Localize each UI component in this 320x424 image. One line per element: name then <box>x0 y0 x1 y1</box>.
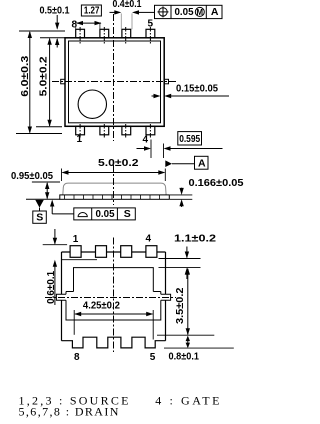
side view mold body <box>63 183 166 195</box>
pin 1 (bottom) <box>76 126 85 135</box>
svg-text:A: A <box>198 157 206 169</box>
svg-text:A: A <box>211 6 219 18</box>
svg-text:0.95±0.05: 0.95±0.05 <box>11 170 53 182</box>
plate tick marks <box>65 195 160 199</box>
vertical centerline top view <box>113 14 115 141</box>
pin1 indicator circle <box>78 90 106 118</box>
pin 7 (top) <box>100 29 109 38</box>
svg-text:S: S <box>124 208 131 220</box>
datum S flag <box>35 200 44 208</box>
svg-text:1.1±0.2: 1.1±0.2 <box>174 233 216 245</box>
dimension 0.595 (boxed) <box>178 132 202 145</box>
horizontal centerline top view <box>52 81 177 83</box>
svg-text:5: 5 <box>148 19 154 30</box>
svg-text:0.15±0.05: 0.15±0.05 <box>176 83 218 95</box>
pin 5 (top) <box>146 29 155 38</box>
svg-text:0.05: 0.05 <box>175 6 194 18</box>
svg-text:S: S <box>36 212 43 224</box>
top view body inner <box>69 41 161 123</box>
svg-text:0.4±0.1: 0.4±0.1 <box>113 0 142 10</box>
feature control frame: profile 0.05 S <box>50 200 54 207</box>
svg-text:5,6,7,8 : DRAIN: 5,6,7,8 : DRAIN <box>19 405 120 419</box>
svg-text:1.27: 1.27 <box>84 5 100 17</box>
dimension 6.0±0.3 <box>16 31 65 134</box>
exposed pad <box>66 268 161 320</box>
pin 3 (bottom) <box>122 126 131 135</box>
datum A box with leader <box>195 156 209 169</box>
svg-text:0.166±0.05: 0.166±0.05 <box>189 177 244 189</box>
pin 6 (top) <box>122 29 131 38</box>
side view centerline <box>113 165 115 205</box>
pin centerlines bottom row <box>80 124 150 138</box>
svg-text:8: 8 <box>74 352 80 363</box>
pin 8 (top) <box>76 29 85 38</box>
svg-text:3.5±0.2: 3.5±0.2 <box>174 287 186 324</box>
svg-text:5.0±0.2: 5.0±0.2 <box>98 157 139 169</box>
seating plane extension <box>26 198 60 200</box>
right tie bar tab <box>161 294 171 300</box>
top view body outer <box>65 38 164 127</box>
bottom view right edge <box>165 252 167 341</box>
pin 2 (bottom) <box>100 126 109 135</box>
svg-text:5: 5 <box>150 352 156 363</box>
bottom view left edge <box>61 252 63 341</box>
svg-text:8: 8 <box>72 20 78 31</box>
svg-text:1: 1 <box>73 234 79 245</box>
svg-text:4: 4 <box>146 234 152 245</box>
side view lead frame plate <box>60 195 170 199</box>
bottom view horizontal centerline <box>45 297 176 299</box>
svg-text:4.25±0.2: 4.25±0.2 <box>83 300 120 312</box>
left tie bar tab <box>56 294 66 300</box>
pin centerlines top row <box>80 27 150 44</box>
svg-text:1: 1 <box>77 134 83 145</box>
svg-text:0.595: 0.595 <box>179 133 200 145</box>
dimension 1.27 (boxed) <box>81 5 101 16</box>
bottom view body top edge <box>62 251 166 253</box>
svg-text:0.8±0.1: 0.8±0.1 <box>169 351 200 363</box>
svg-text:4 : GATE: 4 : GATE <box>155 394 222 408</box>
svg-text:0.5±0.1: 0.5±0.1 <box>40 5 70 17</box>
feature control frame: position 0.05 M A <box>155 5 223 18</box>
bottom comb: corner blocks and teeth <box>62 337 166 348</box>
svg-text:0.05: 0.05 <box>96 208 115 220</box>
bottom view vertical centerline <box>113 238 115 353</box>
left side tab <box>61 79 65 84</box>
dimension 5.0±0.2 (vertical) <box>36 38 65 127</box>
svg-text:6.0±0.3: 6.0±0.3 <box>19 56 31 97</box>
svg-text:4: 4 <box>143 135 149 146</box>
pin 4 (bottom) <box>146 126 155 135</box>
svg-text:5.0±0.2: 5.0±0.2 <box>37 56 49 96</box>
right side tab <box>164 79 168 84</box>
bottom pins (top row) <box>70 246 157 258</box>
svg-text:M: M <box>196 8 203 17</box>
